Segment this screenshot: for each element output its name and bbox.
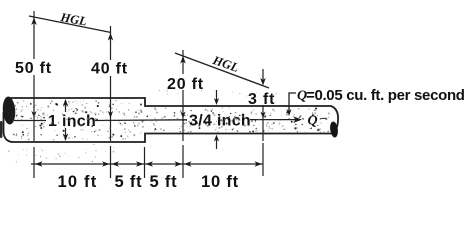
wire HGL right segment	[175, 53, 269, 88]
node arrow down in pipe at 40 ft	[108, 111, 113, 118]
node arrow up 20 ft	[180, 56, 186, 64]
wire piezometer line 40 ft	[110, 26, 112, 178]
wire piezometer line 3 ft	[262, 69, 264, 176]
node arrow up 40 ft	[108, 33, 114, 41]
wire Q bracket leader	[289, 93, 296, 112]
svg-text:20 ft: 20 ft	[167, 76, 204, 93]
node arrow up 50 ft	[31, 18, 37, 26]
wire dimension line bottom	[31, 163, 263, 165]
svg-text:40 ft: 40 ft	[91, 61, 128, 78]
wire center leader line between labels	[95, 119, 187, 122]
node 3/4 inch diameter arrows	[216, 90, 218, 101]
node dim arrows 10 ft left	[35, 161, 43, 167]
svg-text:1 inch: 1 inch	[48, 113, 96, 130]
pipe right end dark blob	[329, 121, 339, 138]
wire center leader line left of 1 inch	[14, 120, 46, 122]
wire small dash after Q	[320, 117, 327, 119]
svg-text:=0.05 cu. ft. per second: =0.05 cu. ft. per second	[306, 87, 465, 104]
node tick at step	[144, 147, 146, 178]
pipe left end cap ellipse	[2, 96, 16, 125]
node dim arrows 5 ft first	[112, 161, 120, 167]
svg-text:50 ft: 50 ft	[15, 60, 52, 77]
pipe interior speckle texture	[8, 90, 330, 163]
node dim arrows 5 ft second	[146, 161, 154, 167]
scan artifact left edge	[0, 121, 2, 138]
wire piezometer line 20 ft	[182, 50, 184, 178]
node 1 inch diameter arrows	[65, 100, 67, 112]
node arrow down 3 ft to HGL	[260, 78, 266, 86]
node arrow down in pipe at 20 ft	[180, 112, 185, 119]
node arrow down in pipe at 3 ft	[260, 112, 265, 119]
node flow arrowhead	[293, 116, 302, 123]
wire piezometer line 50 ft	[33, 11, 35, 178]
wire center leader and flow arrow Q	[250, 119, 296, 121]
wire HGL left segment	[29, 16, 111, 33]
node arrow down in pipe at 50 ft	[31, 111, 36, 118]
node dim arrows 10 ft right	[184, 161, 192, 167]
svg-text:10 ft: 10 ft	[58, 173, 98, 191]
node Q bracket arrowhead	[286, 109, 291, 116]
pipe outline large 1 inch section	[4, 98, 339, 142]
svg-text:5 ft: 5 ft	[150, 173, 178, 191]
svg-text:10 ft: 10 ft	[201, 173, 239, 191]
svg-text:5 ft: 5 ft	[115, 173, 143, 191]
